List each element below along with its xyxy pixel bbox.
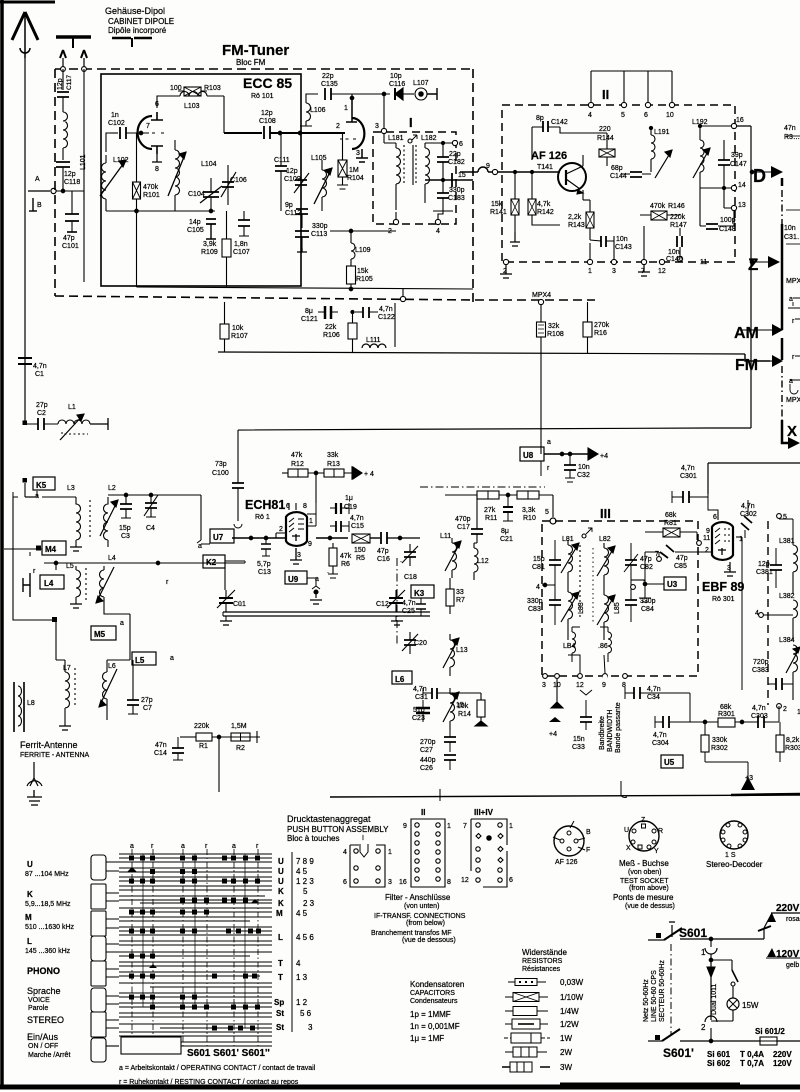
cap C381 xyxy=(770,565,782,570)
coil L192 variable xyxy=(700,140,704,172)
svg-text:R: R xyxy=(658,828,663,835)
terminals 9 8 left of EBF xyxy=(603,675,608,680)
svg-text:Dipôle incorporé: Dipôle incorporé xyxy=(108,26,167,35)
svg-text:C107: C107 xyxy=(233,249,250,256)
cap C148 xyxy=(706,224,718,229)
svg-text:Meß - Buchse: Meß - Buchse xyxy=(619,859,669,868)
svg-text:C7: C7 xyxy=(143,705,152,712)
capacitor C1 xyxy=(18,358,32,364)
wire to terminal 3 xyxy=(383,94,385,128)
svg-text:R12: R12 xyxy=(291,461,304,468)
svg-text:Dual 1011: Dual 1011 xyxy=(711,983,718,1015)
svg-text:R101: R101 xyxy=(143,192,160,199)
svg-text:Rö 101: Rö 101 xyxy=(251,93,274,100)
svg-text:.86: .86 xyxy=(598,643,608,650)
svg-text:L12: L12 xyxy=(477,558,489,565)
svg-text:330p: 330p xyxy=(312,223,328,230)
cap C3 xyxy=(120,504,132,509)
svg-text:7 8 9: 7 8 9 xyxy=(296,857,314,866)
coil L7 xyxy=(65,672,70,726)
connector III+IV xyxy=(471,819,507,887)
svg-text:T 0,7A: T 0,7A xyxy=(740,1059,764,1068)
resistor R104 1M xyxy=(338,160,347,177)
svg-text:MPX: MPX xyxy=(786,397,800,404)
U5 box xyxy=(661,755,683,768)
coil L13 xyxy=(450,640,455,676)
svg-text:220V: 220V xyxy=(773,1050,792,1059)
svg-text:Widerstände: Widerstände xyxy=(522,948,567,957)
coil L3 xyxy=(76,497,81,547)
svg-text:L102: L102 xyxy=(113,157,129,164)
right label column xyxy=(292,852,296,1032)
svg-text:+4: +4 xyxy=(549,731,557,738)
1/2W xyxy=(505,1023,548,1025)
svg-text:III: III xyxy=(600,506,611,521)
svg-text:a: a xyxy=(130,843,134,850)
svg-text:27p: 27p xyxy=(36,402,48,409)
cap C107 xyxy=(238,220,250,226)
svg-text:15p: 15p xyxy=(533,556,545,563)
cap C105 xyxy=(206,219,216,224)
cap C108 xyxy=(264,126,270,139)
svg-text:4,7n: 4,7n xyxy=(402,600,416,607)
svg-text:C381: C381 xyxy=(756,569,773,576)
svg-text:4,7n: 4,7n xyxy=(350,515,364,522)
terminal 4 xyxy=(542,584,555,586)
1/10W xyxy=(505,996,548,998)
wire xyxy=(106,133,118,152)
bottom rail of schematic xyxy=(330,770,800,801)
svg-text:PUSH BUTTON ASSEMBLY: PUSH BUTTON ASSEMBLY xyxy=(287,825,389,834)
svg-text:L181: L181 xyxy=(388,135,404,142)
svg-text:1 2 3: 1 2 3 xyxy=(296,877,314,886)
svg-text:AM: AM xyxy=(734,325,759,342)
resistor R103 xyxy=(184,87,201,96)
resistor R146 wire xyxy=(640,172,651,215)
svg-text:4: 4 xyxy=(755,610,759,617)
svg-text:C16: C16 xyxy=(377,556,390,563)
svg-text:3: 3 xyxy=(375,123,379,130)
0.03W xyxy=(508,981,546,983)
svg-text:T 0,4A: T 0,4A xyxy=(740,1050,764,1059)
top wire of L2 tank xyxy=(108,494,201,496)
svg-text:C304: C304 xyxy=(652,740,669,747)
svg-text:L85: L85 xyxy=(614,602,621,614)
K5 contact a xyxy=(25,496,35,498)
D arrow xyxy=(771,166,783,178)
svg-text:2: 2 xyxy=(705,547,709,554)
svg-text:+4: +4 xyxy=(600,453,608,460)
svg-text:Cü1: Cü1 xyxy=(233,601,246,608)
svg-text:1/4W: 1/4W xyxy=(560,1007,579,1016)
svg-text:51p: 51p xyxy=(413,707,425,714)
pin 6 wire up xyxy=(157,96,180,108)
svg-text:5,9...18,5 MHz: 5,9...18,5 MHz xyxy=(25,901,71,908)
cap C2 xyxy=(38,418,44,430)
diagonal cap C85 xyxy=(666,545,674,552)
svg-text:C2: C2 xyxy=(37,410,46,417)
wire from X down to EBF89 xyxy=(683,496,708,498)
cap C4 variable xyxy=(145,503,157,508)
resistor R302 xyxy=(701,735,709,752)
svg-text:S601: S601 xyxy=(679,926,707,940)
svg-text:L111: L111 xyxy=(366,337,381,344)
svg-text:1: 1 xyxy=(701,948,706,957)
right IF section dashed xyxy=(767,521,769,705)
cap C142 xyxy=(543,121,548,132)
svg-text:a = Arbeitskontakt / OPERATIN: a = Arbeitskontakt / OPERATING CONTACT /… xyxy=(119,1065,316,1072)
pin wires xyxy=(307,503,316,526)
antenna mast arrow xyxy=(24,15,26,58)
svg-text:C111: C111 xyxy=(274,157,290,164)
svg-text:6: 6 xyxy=(155,101,159,108)
120V arrow xyxy=(767,948,776,957)
svg-text:A: A xyxy=(35,176,40,183)
terminal on dashed bottom xyxy=(400,296,405,301)
svg-text:4,7n: 4,7n xyxy=(413,686,427,693)
svg-text:9: 9 xyxy=(602,682,606,689)
svg-text:(von oben): (von oben) xyxy=(628,869,661,876)
svg-text:5: 5 xyxy=(545,509,549,516)
svg-text:12: 12 xyxy=(658,268,666,275)
svg-text:C15: C15 xyxy=(351,523,364,530)
svg-text:12p: 12p xyxy=(758,561,770,568)
tube socket I xyxy=(350,845,385,887)
svg-text:3: 3 xyxy=(727,565,731,572)
svg-text:R6: R6 xyxy=(341,561,350,568)
svg-text:22p: 22p xyxy=(449,151,461,158)
svg-text:R106: R106 xyxy=(323,332,340,339)
svg-text:T: T xyxy=(278,959,283,968)
svg-text:Z: Z xyxy=(748,255,758,274)
wire M4 to L5 xyxy=(44,563,56,570)
svg-text:M4: M4 xyxy=(45,545,57,554)
capacitor C102 xyxy=(120,127,126,139)
svg-text:2: 2 xyxy=(783,706,787,713)
svg-text:3: 3 xyxy=(297,552,301,559)
svg-text:1: 1 xyxy=(588,268,592,275)
wire anode row y133 xyxy=(224,132,262,134)
svg-text:2: 2 xyxy=(336,123,340,130)
+4 arrow below III xyxy=(549,717,561,722)
box II dashed xyxy=(502,105,735,262)
resistor R101 470k xyxy=(133,182,141,199)
cap C7 xyxy=(127,700,139,705)
variable core arrow xyxy=(655,150,672,178)
svg-text:47n: 47n xyxy=(784,125,796,132)
svg-text:5: 5 xyxy=(303,887,308,896)
resistor R301 xyxy=(718,718,735,727)
svg-text:ECC 85: ECC 85 xyxy=(243,75,292,91)
FM arrow xyxy=(772,355,783,367)
svg-text:3W: 3W xyxy=(560,1063,572,1072)
Netz dashed line xyxy=(642,955,644,1030)
svg-text:R143: R143 xyxy=(568,222,585,229)
svg-text:a: a xyxy=(789,296,793,303)
svg-text:3: 3 xyxy=(308,1023,313,1032)
wire L111 up xyxy=(394,303,396,347)
svg-text:32k: 32k xyxy=(548,323,560,330)
coil L4 variable xyxy=(100,570,105,610)
page frame left edge xyxy=(0,0,4,1086)
wire input xyxy=(110,132,118,134)
svg-text:C19: C19 xyxy=(344,504,357,511)
cap C143 xyxy=(601,236,606,247)
resistor R14 xyxy=(477,700,485,717)
coil L1 variable xyxy=(58,420,90,424)
svg-text:1μ: 1μ xyxy=(345,495,353,502)
FM box outline xyxy=(55,69,473,302)
svg-text:6: 6 xyxy=(644,112,648,119)
svg-text:a: a xyxy=(315,576,319,583)
wire bottom row xyxy=(106,210,215,212)
svg-text:M5: M5 xyxy=(94,630,106,639)
svg-text:Si 601/2: Si 601/2 xyxy=(755,1027,785,1036)
terminal 7 xyxy=(657,557,662,562)
svg-text:C108: C108 xyxy=(259,118,276,125)
svg-text:3: 3 xyxy=(388,879,392,886)
matrix vertical columns xyxy=(132,849,258,1046)
svg-text:Si 601: Si 601 xyxy=(707,1050,731,1059)
svg-text:470k: 470k xyxy=(650,203,666,210)
svg-text:L: L xyxy=(278,933,283,942)
svg-text:C102: C102 xyxy=(108,120,125,127)
svg-text:3,3k: 3,3k xyxy=(522,507,536,514)
cap C100 xyxy=(232,483,244,488)
coil L191 xyxy=(651,135,655,159)
svg-text:F: F xyxy=(586,847,590,854)
svg-text:8μ: 8μ xyxy=(501,528,509,535)
terminals 16 14 13 xyxy=(731,123,736,128)
svg-text:R103: R103 xyxy=(204,85,221,92)
AM arrow xyxy=(772,324,783,336)
svg-text:L6: L6 xyxy=(395,675,405,684)
svg-text:Kondensatoren: Kondensatoren xyxy=(410,980,464,989)
svg-text:12: 12 xyxy=(576,682,584,689)
svg-text:4,7n: 4,7n xyxy=(653,732,667,739)
S601' switch xyxy=(648,1040,662,1042)
wire from X region down-left xyxy=(708,463,800,494)
right branch lamp xyxy=(711,960,732,970)
svg-text:47p: 47p xyxy=(377,548,389,555)
svg-text:720p: 720p xyxy=(753,659,769,666)
svg-text:7: 7 xyxy=(655,551,659,558)
svg-text:8: 8 xyxy=(155,166,159,173)
node A xyxy=(28,190,50,192)
svg-text:L7: L7 xyxy=(63,665,71,672)
ground +3 xyxy=(742,722,780,762)
resistor R81 xyxy=(663,528,680,537)
cap C111 xyxy=(275,166,287,171)
svg-text:C143: C143 xyxy=(615,244,632,251)
svg-text:R108: R108 xyxy=(547,331,564,338)
svg-text:X: X xyxy=(787,423,797,440)
svg-text:Ein/Aus: Ein/Aus xyxy=(27,1032,59,1042)
cap C183 xyxy=(437,193,449,198)
svg-text:11: 11 xyxy=(703,535,710,542)
svg-text:15n: 15n xyxy=(573,736,585,743)
L5. box wire xyxy=(129,614,131,660)
svg-text:C118: C118 xyxy=(64,179,80,186)
svg-text:12p: 12p xyxy=(64,171,76,178)
svg-text:r = Ruhekontakt / RESTING C: r = Ruhekontakt / RESTING CONTACT / cont… xyxy=(119,1079,299,1086)
svg-text:R107: R107 xyxy=(231,333,248,340)
coil L104 variable xyxy=(175,150,180,195)
contact to U7 xyxy=(197,540,210,544)
svg-text:L5: L5 xyxy=(66,563,74,570)
svg-text:Rö 301: Rö 301 xyxy=(712,596,735,603)
svg-text:1: 1 xyxy=(739,536,743,543)
svg-text:C81: C81 xyxy=(532,564,545,571)
resistor R12 xyxy=(288,469,308,477)
svg-text:8,2k: 8,2k xyxy=(786,737,800,744)
svg-text:C85: C85 xyxy=(674,563,687,570)
svg-text:6: 6 xyxy=(343,879,347,886)
svg-text:Z: Z xyxy=(641,817,646,824)
coil LR1 variable xyxy=(568,545,573,580)
svg-text:47k: 47k xyxy=(291,452,303,459)
svg-text:U9: U9 xyxy=(288,575,299,584)
wire to L7/L6 row xyxy=(56,627,130,658)
ECH81 tube xyxy=(286,512,307,546)
cap C146 xyxy=(677,236,682,247)
svg-text:C144: C144 xyxy=(610,173,627,180)
svg-text:1/10W: 1/10W xyxy=(560,993,584,1002)
svg-text:6: 6 xyxy=(713,514,717,521)
svg-text:C113: C113 xyxy=(311,231,327,238)
svg-text:(vue de dessous): (vue de dessous) xyxy=(402,937,456,944)
triode V1b xyxy=(352,118,364,149)
svg-text:L8: L8 xyxy=(27,700,35,707)
svg-text:C142: C142 xyxy=(551,119,568,126)
svg-text:III+IV: III+IV xyxy=(474,808,494,817)
svg-text:120V: 120V xyxy=(776,949,800,960)
svg-text:U: U xyxy=(278,857,284,866)
bottom terminals xyxy=(503,259,508,264)
svg-text:C20: C20 xyxy=(414,640,427,647)
cap C304 xyxy=(663,716,669,728)
U9 box xyxy=(285,571,307,584)
tuning gang double line xyxy=(223,612,430,616)
svg-text:C303: C303 xyxy=(751,713,768,720)
svg-text:7: 7 xyxy=(146,123,150,130)
capacitor C101 xyxy=(65,214,79,221)
svg-text:L109: L109 xyxy=(355,247,371,254)
svg-text:a: a xyxy=(232,843,236,850)
svg-text:S601': S601' xyxy=(663,1046,694,1060)
cap C144 xyxy=(630,172,642,177)
svg-text:10n: 10n xyxy=(784,225,796,232)
svg-text:C25: C25 xyxy=(402,608,415,615)
cap C121 electrolytic xyxy=(325,306,331,319)
MPX4 terminal xyxy=(538,299,543,304)
coil L82 variable xyxy=(604,548,609,583)
svg-text:C116: C116 xyxy=(389,81,405,88)
svg-text:330p: 330p xyxy=(449,187,465,194)
svg-text:330k: 330k xyxy=(712,737,728,744)
svg-text:K: K xyxy=(27,890,33,899)
svg-text:VOICE: VOICE xyxy=(28,997,50,1004)
svg-text:C109: C109 xyxy=(284,176,301,183)
svg-text:C83: C83 xyxy=(528,606,541,613)
svg-text:11: 11 xyxy=(700,259,707,266)
svg-text:L192: L192 xyxy=(692,119,708,126)
svg-text:C301: C301 xyxy=(680,473,697,480)
svg-text:L4: L4 xyxy=(44,579,54,588)
svg-text:440p: 440p xyxy=(420,757,436,764)
svg-text:33: 33 xyxy=(456,589,464,596)
svg-text:4,7n: 4,7n xyxy=(741,503,755,510)
svg-text:C302: C302 xyxy=(740,511,757,518)
svg-text:R1: R1 xyxy=(199,743,208,750)
svg-text:47p: 47p xyxy=(676,555,688,562)
svg-text:9p: 9p xyxy=(285,202,293,209)
cap C82 xyxy=(625,560,637,565)
svg-text:K: K xyxy=(278,887,284,896)
svg-text:St: St xyxy=(276,1009,284,1018)
svg-text:4: 4 xyxy=(436,228,440,235)
svg-text:C84: C84 xyxy=(641,606,654,613)
svg-text:St: St xyxy=(276,1023,284,1032)
3W xyxy=(502,1066,550,1068)
svg-text:10n: 10n xyxy=(668,249,680,256)
coil L83 variable xyxy=(568,592,573,640)
resistor R105 xyxy=(347,266,356,284)
svg-text:(from above): (from above) xyxy=(629,885,669,892)
svg-text:9: 9 xyxy=(486,163,490,170)
svg-text:K: K xyxy=(278,899,284,908)
svg-text:L83: L83 xyxy=(578,602,585,614)
cap C12 variable xyxy=(389,598,403,603)
svg-text:10n: 10n xyxy=(616,236,628,243)
input hop and pin 9 xyxy=(460,171,478,173)
svg-text:II: II xyxy=(421,808,425,817)
svg-text:U: U xyxy=(278,867,284,876)
triode V1a xyxy=(138,116,152,149)
terminal 1 xyxy=(631,579,645,581)
transformer primary top xyxy=(710,939,712,947)
node junction xyxy=(61,189,65,193)
cap C25 xyxy=(416,604,426,609)
svg-text:10k: 10k xyxy=(232,325,244,332)
left bracket wire xyxy=(13,497,38,620)
coils right edge L381 L382 L384 xyxy=(793,545,798,594)
wire drop from R81 left xyxy=(649,531,651,545)
svg-text:C3: C3 xyxy=(121,533,130,540)
svg-text:C183: C183 xyxy=(448,195,465,202)
capacitor C117 xyxy=(57,92,69,97)
svg-text:145 ...360 kHz: 145 ...360 kHz xyxy=(25,948,71,955)
svg-text:R147: R147 xyxy=(670,222,687,229)
male symbol xyxy=(586,528,592,534)
cap C16 xyxy=(381,532,387,544)
svg-text:1W: 1W xyxy=(560,1034,572,1043)
svg-text:ON / OFF: ON / OFF xyxy=(28,1043,58,1050)
wire MPX4 down xyxy=(540,305,542,454)
svg-text:4: 4 xyxy=(296,959,301,968)
rail y287 xyxy=(137,287,474,289)
svg-text:68p: 68p xyxy=(611,165,623,172)
coil L84 xyxy=(568,624,581,664)
svg-text:II: II xyxy=(602,87,609,102)
bandwidth trimmer C33 xyxy=(580,717,592,722)
svg-text:(von unten): (von unten) xyxy=(404,903,439,910)
svg-text:87 ...104 MHz: 87 ...104 MHz xyxy=(25,871,69,878)
cap C83 xyxy=(549,600,561,605)
svg-text:C105: C105 xyxy=(187,227,204,234)
svg-text:L381: L381 xyxy=(779,538,795,545)
svg-text:16: 16 xyxy=(399,879,407,886)
